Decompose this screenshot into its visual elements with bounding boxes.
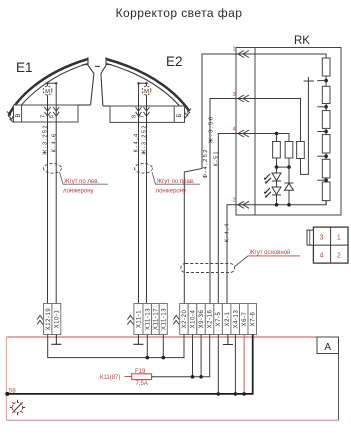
svg-text:Ж-3.252: Ж-3.252 <box>43 124 49 155</box>
net Y3 illumination bus <box>6 335 252 394</box>
box Х10-1 <box>52 304 61 335</box>
connector arrow right group <box>173 316 179 325</box>
block A left border <box>5 337 7 420</box>
RK connector strip divider <box>254 48 256 216</box>
LED HL1 emission arrows <box>265 174 271 183</box>
resistor Ra <box>322 58 330 76</box>
svg-text:Х7-5: Х7-5 <box>216 311 222 326</box>
svg-text:А: А <box>324 342 331 353</box>
E2 pin 7 contact <box>144 107 150 116</box>
svg-text:Х10-4: Х10-4 <box>191 310 197 329</box>
RK pin 4 contact <box>238 130 249 137</box>
tap junction 3 <box>324 130 328 134</box>
ground T of Х10-1 <box>51 335 61 345</box>
wire Ж-3.252 from E1 pin 7 to Х12-19 <box>47 95 49 304</box>
tap junction 4 <box>324 154 328 158</box>
svg-text:7: 7 <box>40 115 46 118</box>
wire LED to bus <box>276 195 278 205</box>
svg-text:4: 4 <box>320 253 324 260</box>
node pin4-R1 <box>275 132 279 136</box>
tap junction 2 <box>324 105 328 109</box>
svg-text:1: 1 <box>233 47 236 53</box>
box Х7-5 <box>214 304 223 335</box>
wire RK pin3 down (Ж-3.56) <box>210 99 236 304</box>
box Х12-19 <box>44 304 52 335</box>
svg-text:Х12-19: Х12-19 <box>46 308 52 331</box>
svg-text:Х9-36: Х9-36 <box>199 310 205 329</box>
headlight E2 housing outline <box>101 57 191 118</box>
svg-text:В: В <box>16 113 22 117</box>
box Х6-7 <box>240 304 249 335</box>
connector arrow left group <box>37 316 43 325</box>
connector XRK body <box>313 227 348 263</box>
block A bottom border <box>6 419 338 421</box>
resistor chain vertical wire <box>325 58 327 205</box>
resistor Rb <box>322 86 330 103</box>
diode VD1 <box>288 167 290 183</box>
node Х10-4 on Y2 <box>192 335 194 377</box>
box Х11-17 <box>152 304 160 335</box>
svg-text:8: 8 <box>131 115 137 118</box>
wire R1 top <box>276 134 278 142</box>
resistor Rd <box>322 135 330 153</box>
svg-text:К-51: К-51 <box>213 150 219 166</box>
RK internal ground bus from pin 2 <box>236 201 326 205</box>
svg-text:Е2: Е2 <box>166 54 183 69</box>
headlight E2 connector body <box>110 106 185 122</box>
node Х9-36 on Y2 <box>200 335 202 377</box>
node Х6-7 on Y3 red wire <box>243 335 245 394</box>
wire pin 4 to resistors R1 R2 <box>236 134 289 142</box>
svg-text:К-4,4: К-4,4 <box>134 132 140 152</box>
RK pin 3 contact <box>238 95 249 102</box>
block A label box <box>317 337 339 354</box>
wire RK pin2 down (К-4,4) <box>227 205 236 304</box>
svg-text:К-4,4: К-4,4 <box>224 222 230 242</box>
svg-text:2: 2 <box>337 253 341 260</box>
svg-text:Х11-17: Х11-17 <box>153 308 159 330</box>
resistor Rc <box>322 111 330 129</box>
wire К-4,6 from E1 pin 6 to Х10-1 <box>55 107 57 304</box>
svg-text:Ж-3.252: Ж-3.252 <box>142 124 148 155</box>
E1 pin 6 contact <box>53 107 59 116</box>
E1 pin 7 contact <box>45 107 51 116</box>
wire Х12-19 to net Y1 <box>48 335 184 358</box>
svg-text:7: 7 <box>139 115 145 118</box>
box Х2-20 <box>180 304 189 335</box>
wire RK pin1 down (Ф-4,252) <box>184 54 236 304</box>
RK block body <box>236 48 341 216</box>
block A top border <box>6 336 317 338</box>
wiper return wire <box>301 77 309 174</box>
wire RK pin4 down (К-51) <box>218 134 236 304</box>
svg-text:Х11-13: Х11-13 <box>161 308 167 330</box>
svg-text:Жгут основной: Жгут основной <box>249 249 290 256</box>
box Х11-1 <box>134 304 143 335</box>
block A right border <box>338 337 340 420</box>
headlight E1 housing outline <box>7 57 100 122</box>
svg-text:К11(87): К11(87) <box>100 375 120 381</box>
box Х11-13 second <box>159 304 167 335</box>
main harness dashed outline <box>181 264 235 273</box>
box Х7-6 <box>248 304 257 335</box>
label Жгут основной <box>248 255 300 257</box>
LED HL1 <box>276 167 278 173</box>
resistor R1 <box>273 142 281 159</box>
svg-text:Х2-16: Х2-16 <box>208 310 214 329</box>
svg-text:М: М <box>45 89 50 95</box>
node Х7-5 on Y3 <box>217 335 219 394</box>
leader to left harness label <box>60 172 109 184</box>
svg-text:2: 2 <box>233 198 236 204</box>
illumination lamp symbol <box>10 400 25 415</box>
motor M of E1 <box>43 86 52 95</box>
svg-text:Х10-1: Х10-1 <box>54 310 60 329</box>
svg-text:М: М <box>144 89 149 95</box>
motor M of E2 <box>142 86 151 95</box>
svg-text:лонжерону: лонжерону <box>63 188 94 194</box>
resistor Re <box>322 159 330 178</box>
leader to right harness label <box>152 172 200 184</box>
connector arrow middle group <box>127 316 133 325</box>
RK pin 1 contact <box>238 51 249 58</box>
wire Ж-3.252 from E2 pin 7 to Х11-13 <box>146 95 148 304</box>
svg-text:К-4,6: К-4,6 <box>51 132 57 152</box>
svg-text:Ф-4,252: Ф-4,252 <box>203 148 209 178</box>
node Х4-13 on Y3 <box>234 335 236 394</box>
E2 pin 8 contact <box>136 107 142 116</box>
svg-text:Е1: Е1 <box>16 60 33 75</box>
wire R2 bottom to node <box>288 158 290 167</box>
svg-text:Х11-13: Х11-13 <box>145 308 151 330</box>
node Х11-13b on Y1 <box>162 335 164 358</box>
svg-text:1: 1 <box>337 235 341 242</box>
leader to main harness label <box>235 256 248 267</box>
svg-text:Х6-7: Х6-7 <box>242 311 248 326</box>
wire R1 bottom to node <box>276 158 278 167</box>
LED HL2 emission arrows <box>265 188 271 197</box>
tap junction 5 <box>324 178 328 182</box>
svg-text:3: 3 <box>320 235 324 242</box>
svg-text:Х2-1: Х2-1 <box>225 311 231 326</box>
harness ellipse left <box>44 164 62 174</box>
resistor R2 <box>285 142 293 159</box>
svg-text:6: 6 <box>49 115 55 118</box>
wiper contact cross <box>304 80 314 82</box>
tap junction 1 <box>324 79 328 83</box>
ground T of Х11-1 <box>133 335 143 345</box>
svg-text:4: 4 <box>233 127 236 133</box>
svg-text:7,5А: 7,5А <box>136 381 148 387</box>
svg-text:Жгут по прав.: Жгут по прав. <box>157 179 196 185</box>
LED HL2 <box>276 181 278 187</box>
svg-text:Х2-20: Х2-20 <box>182 310 188 329</box>
box Х2-16 <box>205 304 214 335</box>
svg-text:3: 3 <box>233 92 236 98</box>
box Х9-36 <box>197 304 206 335</box>
node Х11-13 on Y1 <box>146 335 148 358</box>
resistor Rf <box>322 182 330 201</box>
link node R1-R2 <box>277 166 290 168</box>
RK pin 2 contact <box>238 201 249 208</box>
svg-text:Х7-6: Х7-6 <box>250 311 256 326</box>
box Х4-13 <box>231 304 240 335</box>
wire pin 3 to wiper <box>236 99 301 142</box>
box Х10-4 <box>188 304 197 335</box>
resistor R3 in wiper branch <box>297 142 305 159</box>
svg-text:лонжерону: лонжерону <box>156 188 187 194</box>
svg-text:Б: Б <box>177 114 183 118</box>
net Y2 fuse output <box>152 335 210 377</box>
svg-text:Жгут по лев.: Жгут по лев. <box>64 179 99 185</box>
ground T of Х2-1 <box>223 335 233 345</box>
harness ellipse right <box>135 164 153 174</box>
svg-text:Корректор света фар: Корректор света фар <box>116 6 243 20</box>
connector XRK key tab <box>307 230 313 245</box>
box Х11-13 <box>143 304 152 335</box>
svg-text:Ж-3.56: Ж-3.56 <box>209 115 215 143</box>
box Х2-1 <box>222 304 231 335</box>
svg-text:Х11-1: Х11-1 <box>137 310 143 328</box>
svg-text:RK: RK <box>294 35 310 47</box>
wire К-4,4 from E2 pin 8 to Х11-1 <box>138 107 140 304</box>
wire pin1 to resistor chain top <box>236 54 326 58</box>
svg-text:Х4-13: Х4-13 <box>233 310 239 329</box>
headlight E1 connector body <box>14 105 79 122</box>
